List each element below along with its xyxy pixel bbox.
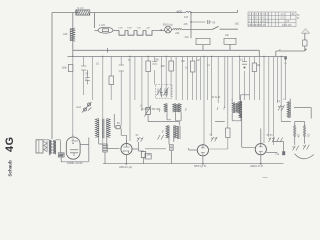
wire osc coil leads <box>99 139 107 149</box>
resistor R3 <box>146 61 151 72</box>
wire tube V2 bottom <box>202 156 204 164</box>
resistor R4 <box>169 61 174 71</box>
resistor R9 <box>58 153 64 157</box>
wire drop x130 <box>129 57 131 142</box>
wire drop x259.3 <box>258 57 260 101</box>
svg-text:175: 175 <box>147 154 152 157</box>
capacitor C16 slashes <box>137 137 143 142</box>
wire drop x232.2 <box>231 57 233 99</box>
wire drop x114.3 <box>113 114 115 127</box>
wire drop x118.5 <box>121 129 126 144</box>
svg-text:465826413: 465826413 <box>249 18 270 20</box>
wire drop x218.2 <box>217 57 219 104</box>
resistor R13 zigzag <box>294 126 296 137</box>
node dot V2 bottom <box>202 163 204 165</box>
tube V3 <box>255 144 266 155</box>
svg-text:mod: mod <box>76 106 81 109</box>
wire drop x176.1 <box>175 57 177 101</box>
wire top horizontal bus <box>52 10 238 13</box>
svg-text:Schaub: Schaub <box>7 160 12 177</box>
wire second vertical lead <box>72 13 74 57</box>
svg-text:300: 300 <box>161 65 166 68</box>
wire left vertical antenna lead <box>51 13 53 140</box>
wire L7 top <box>289 99 291 102</box>
node dot V3 bottom <box>260 163 262 165</box>
capacitor C11 <box>81 66 86 70</box>
svg-text:600: 600 <box>177 10 183 14</box>
wire switch to right <box>220 28 239 30</box>
capacitor C13 <box>152 62 157 65</box>
wire drop x211.6 <box>211 57 213 137</box>
wire R7 leads <box>114 126 121 128</box>
resistor R5 <box>190 61 195 72</box>
IFT1 coil single <box>164 104 167 113</box>
table top right <box>248 12 296 27</box>
wire box stubs <box>203 44 230 50</box>
wire drop x92.5 <box>92 57 94 101</box>
wire drop x121.2 <box>120 57 122 126</box>
wire loops to lamp <box>143 29 165 31</box>
coil L5 oscillator right <box>103 119 111 139</box>
wire drop x273.6 <box>273 57 275 146</box>
capacitor C23 <box>85 70 90 84</box>
dashed box shield <box>156 85 173 99</box>
wire drop x239.6 <box>239 57 241 101</box>
svg-text:m: m <box>285 62 287 65</box>
wire R10 bottom <box>143 158 145 164</box>
capacitor C20 slashes <box>277 137 283 142</box>
svg-text:ABL6 2l 3l: ABL6 2l 3l <box>249 164 263 168</box>
wire IFT2 bottom <box>232 113 241 121</box>
svg-text:4n5: 4n5 <box>185 36 190 39</box>
output transformer T1 core <box>48 140 51 155</box>
tube V4 oval rectifier <box>66 137 80 159</box>
wire y121.5 segment b <box>215 121 225 123</box>
node dot 191a <box>190 12 192 14</box>
resistor R2 <box>109 76 114 85</box>
choke L6 <box>239 101 242 119</box>
mark bottom dash <box>263 176 268 178</box>
capacitor C21 slashes <box>292 146 298 151</box>
wire main bus B <box>68 56 288 58</box>
potentiometer R8 <box>145 106 152 117</box>
wire loop link <box>125 29 137 31</box>
wire R9 <box>61 141 89 162</box>
wire drop x154.7 <box>154 57 156 85</box>
wire tube V3 bottom <box>260 155 262 164</box>
svg-text:ABC41 (a): ABC41 (a) <box>118 165 132 169</box>
wire upper bus A <box>73 49 259 51</box>
wire drop x277.4 <box>276 57 278 104</box>
svg-text:EM11 (a): EM11 (a) <box>163 24 173 27</box>
wire drop x200.7 <box>200 57 202 101</box>
svg-text:4n5: 4n5 <box>184 16 189 19</box>
svg-text:T6/B: T6/B <box>127 28 132 30</box>
node dot C14 <box>244 67 246 69</box>
tube V1 <box>121 143 132 154</box>
wire drop x249.5 <box>249 57 251 101</box>
wire R13 R14 tops <box>295 122 305 126</box>
svg-text:Q/B: Q/B <box>146 28 150 30</box>
wire R20 to corner <box>305 46 307 51</box>
capacitor C12 <box>119 65 124 71</box>
wire drop x196.3 <box>195 57 197 101</box>
wire drop x204 <box>203 57 205 145</box>
wire IFT1 links <box>167 112 181 163</box>
svg-text:343: 343 <box>63 32 68 36</box>
rect box R12 <box>145 154 151 160</box>
wire drop x148.1 <box>147 57 149 108</box>
lamp EM circle with X <box>165 26 172 33</box>
wire L8 to tube V1 <box>107 148 119 150</box>
capacitor C50 branch <box>191 20 212 24</box>
resistor R1 <box>68 65 73 72</box>
svg-text:1M: 1M <box>197 60 200 62</box>
wire tube V4 top <box>73 135 89 162</box>
wire tube V1 bottom <box>126 155 128 164</box>
output transformer coil L7 <box>287 102 290 118</box>
wire drop x264 <box>263 57 265 144</box>
wire tube V3 left <box>242 119 255 148</box>
wire R13 R14 bottoms <box>295 137 305 145</box>
node dot EM left <box>161 29 163 31</box>
wire drop x182.6 <box>182 57 184 101</box>
trimmer cap CT3 <box>160 90 168 98</box>
component box B1 <box>196 38 210 44</box>
wire y107.5 right <box>294 108 311 119</box>
node dot bus285 <box>284 57 287 60</box>
coil loop T1 <box>119 30 125 35</box>
wire drop x192.5 <box>192 57 194 101</box>
wire lamp lead <box>304 33 306 40</box>
wire V2 left <box>189 148 198 150</box>
svg-text:4G: 4G <box>4 136 16 152</box>
wire drop x254.4 <box>253 57 255 101</box>
svg-text:30 300 3k 30k 300: 30 300 3k 30k 300 <box>141 109 161 111</box>
wire drop x171.1 <box>161 57 171 98</box>
wire y148.8 under IFT1 <box>145 148 166 150</box>
speaker frame <box>36 140 47 153</box>
svg-text:242: 242 <box>175 32 180 35</box>
IFT1 coil c <box>166 126 169 140</box>
wire bottom bus <box>103 163 284 165</box>
coil L3 humps <box>171 28 182 29</box>
svg-text:T1/B: T1/B <box>118 28 123 30</box>
resistor R14 zigzag <box>303 126 305 137</box>
capacitor C19 slashes <box>268 137 274 142</box>
wire drop x187.6 <box>187 57 189 101</box>
svg-text:AW: AW <box>59 153 64 157</box>
switch S1 <box>213 26 219 29</box>
trimmer CT1 <box>157 88 162 96</box>
wire droop cable <box>295 154 314 159</box>
terminal blob <box>282 151 285 155</box>
resistor R15 <box>226 128 230 138</box>
wire drop x141.9 <box>141 57 143 112</box>
svg-text:T1/6: T1/6 <box>137 28 142 30</box>
coil L1 antenna winding <box>70 28 75 41</box>
svg-text:1kΩ: 1kΩ <box>235 22 240 25</box>
wire LC6 to loops row <box>113 29 119 31</box>
output transformer T1 windings <box>50 140 56 154</box>
capacitor C22 slashes <box>303 145 309 150</box>
wire speaker top <box>43 139 61 141</box>
svg-text:123456789: 123456789 <box>249 14 270 16</box>
wire drop x166.2 <box>165 57 167 91</box>
resistor R7 <box>116 126 120 129</box>
wire drop x83.7 <box>83 57 85 96</box>
wire drop x207.3 <box>206 57 208 101</box>
wire L8 bottom <box>104 152 106 164</box>
resistor R10 <box>141 152 145 158</box>
coil loop T4 <box>146 30 152 35</box>
svg-text:3k 3o 3k: 3k 3o 3k <box>212 97 222 99</box>
capacitor C15 slashes <box>278 105 285 111</box>
node dot 191b <box>190 21 192 23</box>
svg-text:FM/BL 2A/3N: FM/BL 2A/3N <box>67 161 83 165</box>
capacitor C14 <box>242 62 247 65</box>
wire IFT2 top <box>232 95 249 103</box>
tube V2 <box>197 145 208 156</box>
IFT1 coil pair <box>173 104 182 113</box>
wire drop x111.2 <box>110 57 112 101</box>
coil L4 oscillator left <box>95 119 98 139</box>
coil small box L9 <box>170 145 174 151</box>
svg-text:N.C.6: N.C.6 <box>78 8 85 10</box>
wire tube V3 top <box>260 129 262 144</box>
svg-text:5n 5n: 5n 5n <box>267 134 274 137</box>
junction tick busA <box>107 48 109 53</box>
svg-text:4n5: 4n5 <box>184 23 189 26</box>
wire drop x285.3 <box>284 57 286 101</box>
wire drop x161.3 <box>160 57 162 91</box>
capacitor C17 slashes <box>211 137 217 142</box>
capacitor LC6 oval <box>98 27 113 33</box>
wire to switch S1 <box>182 28 213 30</box>
coil box L8 <box>103 144 107 152</box>
wire R8 corner <box>148 114 179 125</box>
wire drop x73 <box>72 57 74 138</box>
coil L2 top hatched <box>76 10 90 15</box>
svg-text:06069088 48: 06069088 48 <box>248 24 266 27</box>
resistor R6 <box>252 63 256 72</box>
wire bus A corner <box>258 50 260 56</box>
pilot lamp cone <box>302 29 310 34</box>
wire drop x268.8 <box>268 57 270 138</box>
wire V1 right <box>132 142 143 152</box>
wire drop x134.9 <box>134 57 136 101</box>
wire tube V1 top <box>126 141 128 144</box>
svg-text:≠1k: ≠1k <box>275 152 280 156</box>
capacitor C18 slashes <box>158 135 164 140</box>
wire drop x102.8 <box>102 57 104 145</box>
coil loop T2 <box>128 30 134 35</box>
wire y121.5 segment <box>281 121 291 123</box>
wire from top line down to LC6 <box>95 13 99 31</box>
wire tube V3 right <box>266 151 277 153</box>
trimmer CT2 <box>164 88 169 96</box>
wire lamp feed horizontal <box>276 51 305 57</box>
table cell texture <box>248 14 300 27</box>
wire terminal lead <box>273 142 284 152</box>
resistor R20 <box>303 40 307 46</box>
node dots on bus <box>72 56 282 57</box>
switch S2 wave <box>82 102 92 113</box>
wire drop x281.2 <box>280 57 282 122</box>
svg-text:4060 425: 4060 425 <box>282 25 292 27</box>
svg-text:58/6 Ql 5l: 58/6 Ql 5l <box>194 164 206 168</box>
IFT1 coil d <box>174 126 180 140</box>
node dot V1 bottom <box>125 163 127 165</box>
wire drop x224.8 <box>224 57 226 109</box>
svg-text:100k: 100k <box>62 67 68 70</box>
component box B2 <box>224 38 236 44</box>
coil loop T3 <box>137 30 143 35</box>
wire drop x244.5 <box>244 57 246 101</box>
svg-text:L C6: L C6 <box>99 23 105 27</box>
wire drop x227.8 <box>209 57 228 150</box>
IFT2 coil pair <box>232 103 241 114</box>
wire vertical at 191 <box>190 13 192 39</box>
